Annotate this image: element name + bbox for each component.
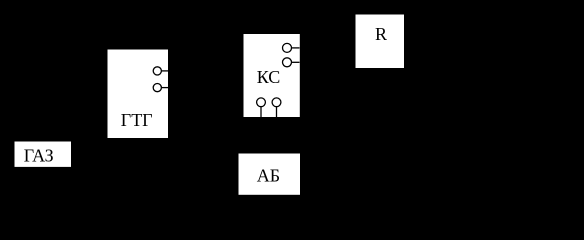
terminal T2 on GTG right side (lower) — [153, 84, 168, 92]
svg-text:R: R — [375, 24, 387, 44]
block AB (storage battery) — [239, 154, 301, 195]
svg-text:ГАЗ: ГАЗ — [24, 146, 54, 166]
svg-text:ГТГ: ГТГ — [121, 110, 153, 130]
svg-text:КС: КС — [257, 67, 281, 87]
block KS (contactor/switchboard) — [244, 34, 300, 117]
terminal T6 on KS bottom (right) — [272, 98, 281, 117]
block GAZ (gas supply) — [15, 142, 72, 167]
terminal T4 on KS right side (lower) — [283, 58, 300, 67]
svg-text:АБ: АБ — [257, 166, 280, 186]
terminal T1 on GTG right side (upper) — [153, 67, 168, 75]
terminal T5 on KS bottom (left) — [257, 98, 266, 117]
block GTG (gas turbine generator) — [108, 50, 169, 139]
block R (load resistor) — [356, 15, 405, 69]
terminal T3 on KS right side (upper) — [283, 43, 300, 52]
